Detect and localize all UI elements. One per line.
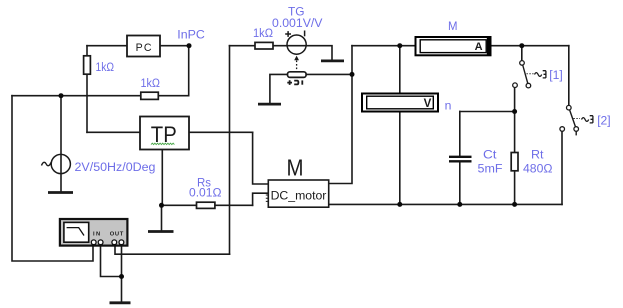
svg-text:A: A <box>475 41 483 53</box>
svg-text:2V/50Hz/0Deg: 2V/50Hz/0Deg <box>75 160 156 174</box>
svg-text:IN: IN <box>93 232 102 238</box>
svg-text:5mF: 5mF <box>478 162 503 176</box>
svg-text:Rt: Rt <box>531 148 544 162</box>
svg-text:M: M <box>448 19 458 33</box>
svg-text:0.01Ω: 0.01Ω <box>189 186 222 200</box>
svg-text:PC: PC <box>136 42 153 54</box>
svg-text:480Ω: 480Ω <box>523 162 553 176</box>
svg-text:n: n <box>445 99 452 113</box>
svg-text:1kΩ: 1kΩ <box>141 76 161 90</box>
svg-text:InPC: InPC <box>177 27 205 41</box>
svg-text:Ct: Ct <box>483 148 497 162</box>
svg-text:0.001V/V: 0.001V/V <box>272 16 323 30</box>
svg-text:M: M <box>287 155 304 181</box>
svg-text:V: V <box>424 98 432 110</box>
svg-text:DC_motor: DC_motor <box>271 188 327 202</box>
svg-text:1kΩ: 1kΩ <box>253 26 273 40</box>
svg-text:1kΩ: 1kΩ <box>96 60 115 74</box>
svg-text:OUT: OUT <box>110 232 124 238</box>
svg-text:[2]: [2] <box>597 114 611 128</box>
svg-text:[1]: [1] <box>549 68 563 82</box>
